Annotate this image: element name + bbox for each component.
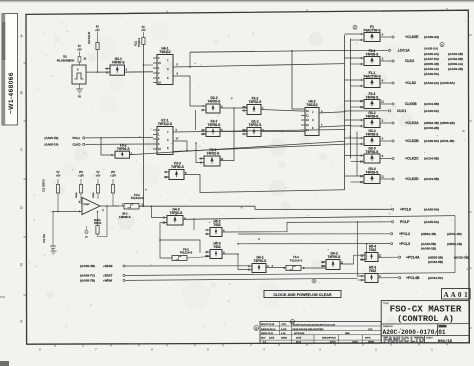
svg-text:A-DR: A-DR xyxy=(281,328,287,331)
sheet id box AA01 xyxy=(442,289,471,300)
wire PCL1 branch down to F5-2 xyxy=(101,138,110,155)
svg-text:CHKD: CHKD xyxy=(352,342,358,344)
circled 2 annotation xyxy=(353,25,357,29)
svg-text:05.01: 05.01 xyxy=(296,342,302,344)
svg-text:(AA03-1B): (AA03-1B) xyxy=(448,52,463,56)
wire tap from F4-1 output into G4-3 pin9 xyxy=(152,206,163,217)
gate F3-7 xyxy=(201,120,223,137)
svg-text:74F08-S: 74F08-S xyxy=(366,132,379,136)
terminal PCLP xyxy=(392,221,394,223)
svg-text:(AB02-4B): (AB02-4B) xyxy=(421,232,436,236)
svg-text:LM339-S: LM339-S xyxy=(119,215,131,219)
svg-text:7432: 7432 xyxy=(369,248,377,252)
svg-text:74F08-S: 74F08-S xyxy=(366,114,379,118)
svg-text:B: B xyxy=(255,326,257,330)
wire H5-2 output to PCLP terminal xyxy=(222,222,391,232)
svg-text:(AA06-5A): (AA06-5A) xyxy=(424,109,439,113)
svg-text:CLOCK AND POWER-ON CLEAR: CLOCK AND POWER-ON CLEAR xyxy=(273,293,332,297)
title block rev cell xyxy=(437,324,439,336)
svg-text:C12 33u: C12 33u xyxy=(43,233,46,243)
svg-text:+ERST: +ERST xyxy=(103,274,113,278)
svg-text:K: K xyxy=(312,126,314,130)
wire R111 long vertical xyxy=(142,45,144,207)
svg-text:74LS14-S: 74LS14-S xyxy=(290,258,303,262)
comparator J6-1 LM339-S xyxy=(82,198,100,215)
svg-text:A: A xyxy=(292,320,294,324)
gate H5-3b xyxy=(360,266,381,283)
svg-text:BT220-S: BT220-S xyxy=(139,37,141,47)
gate F2-2 xyxy=(242,97,264,115)
wire F3-3 output to gate column xyxy=(184,175,345,193)
svg-text:R92B: R92B xyxy=(93,192,95,198)
wire G4-2 output to H5-4 xyxy=(340,255,365,264)
gate G4-3 xyxy=(162,208,186,225)
revision mark circled A xyxy=(290,320,294,324)
gate G3-3 74F08-S xyxy=(345,146,439,163)
svg-text:+5V: +5V xyxy=(96,175,101,178)
svg-text:.FP/1: .FP/1 xyxy=(281,324,287,326)
svg-text:74F08-S: 74F08-S xyxy=(208,123,221,127)
paper texture blotches xyxy=(62,162,77,177)
resistor divider 4 xyxy=(111,185,114,194)
svg-text:+5V: +5V xyxy=(56,175,61,178)
svg-text:4-08: 4-08 xyxy=(281,333,286,335)
svg-text:(AA08-7C): (AA08-7C) xyxy=(80,274,95,278)
flip-flop H4-1 xyxy=(153,47,173,85)
wire F6-2 loop xyxy=(160,223,172,259)
svg-text:40.0000MXH: 40.0000MXH xyxy=(57,58,75,62)
svg-text:K: K xyxy=(167,146,169,150)
scan smudge bottom-left xyxy=(0,361,9,366)
gate G1-1 xyxy=(242,120,264,137)
svg-text:7432: 7432 xyxy=(213,245,221,249)
svg-text:(AA06-5B): (AA06-5B) xyxy=(421,242,436,246)
svg-text:74LS14-S: 74LS14-S xyxy=(131,196,144,200)
svg-text:(AA05-7A): (AA05-7A) xyxy=(44,143,58,147)
test point circle xyxy=(85,231,88,234)
svg-text:TITLE: TITLE xyxy=(383,303,389,305)
svg-text:(AA09-5C): (AA09-5C) xyxy=(424,72,439,76)
wire G4-3 output long line xyxy=(183,216,455,220)
svg-text:DATE: DATE xyxy=(269,337,275,340)
frame tick marks left xyxy=(24,62,27,64)
scan top edge shadow xyxy=(0,0,474,1)
wire clock line to gate column xyxy=(190,50,345,52)
svg-text:74F02-S: 74F02-S xyxy=(249,123,262,127)
svg-text:(AA08-GA): (AA08-GA) xyxy=(424,47,438,51)
gate H5-4 xyxy=(360,245,382,262)
svg-text:(AA02-2A) (AA05-5A): (AA02-2A) (AA05-5A) xyxy=(424,81,455,85)
svg-text:R111: R111 xyxy=(136,40,138,46)
svg-text:+PCL3: +PCL3 xyxy=(399,242,410,246)
svg-text:F: F xyxy=(21,320,23,324)
svg-text:74F00-S: 74F00-S xyxy=(208,100,221,104)
svg-text:APVD: APVD xyxy=(330,341,336,344)
svg-text:CLKD: CLKD xyxy=(73,143,81,147)
svg-text:EDIT: EDIT xyxy=(261,338,266,340)
svg-text:(AB05-2B): (AB05-2B) xyxy=(428,255,443,259)
resistor 1K into oscillator xyxy=(78,52,80,57)
wire H5-4 output to +PCL4A terminal xyxy=(378,256,398,258)
svg-text:(AD05-1B): (AD05-1B) xyxy=(424,62,439,66)
terminal +PCL3 xyxy=(391,243,393,245)
svg-text:PAGE 005-008 ARE MODIFIED.: PAGE 005-008 ARE MODIFIED. xyxy=(293,328,325,331)
svg-text:DATE: DATE xyxy=(296,337,302,340)
gate G2-1 xyxy=(105,57,128,75)
svg-text:74ACT00-S: 74ACT00-S xyxy=(363,28,381,32)
svg-text:+CLK0E: +CLK0E xyxy=(405,35,419,39)
svg-text:LDC1A: LDC1A xyxy=(398,49,410,53)
svg-text:74F00-S: 74F00-S xyxy=(328,255,341,259)
gate G3-1 74F08-S xyxy=(345,111,455,130)
svg-text:R91B: R91B xyxy=(76,192,78,198)
wire F4-1 output to +PCL0 line xyxy=(139,206,391,209)
svg-text:FSO-CX MASTER: FSO-CX MASTER xyxy=(390,304,462,315)
svg-text:CLK1: CLK1 xyxy=(397,109,406,113)
gate G4-2 xyxy=(321,252,344,270)
svg-text:(AA08-G2): (AA08-G2) xyxy=(424,35,439,39)
svg-text:CLK2: CLK2 xyxy=(405,59,414,63)
svg-text:DESCRIPTION: DESCRIPTION xyxy=(322,338,336,340)
wire G2-2 input stubs vertical xyxy=(195,110,197,130)
svg-text:+CLK2A: +CLK2A xyxy=(405,121,419,125)
gate F1-1 74ACT00-S xyxy=(345,71,455,88)
svg-text:(AC04-5C): (AC04-5C) xyxy=(428,276,443,280)
terminal LDC1A xyxy=(345,49,389,51)
svg-text:CLK0B: CLK0B xyxy=(405,102,417,106)
svg-text:+5V: +5V xyxy=(95,29,100,32)
svg-text:DESIG: DESIG xyxy=(368,342,375,344)
resistor divider 3 xyxy=(96,185,99,194)
svg-text:+CLS2: +CLS2 xyxy=(405,81,416,85)
svg-text:LTD: LTD xyxy=(411,337,425,344)
svg-text:Rev.07/7.8.4.P.10.2.10.10.3.Re: Rev.07/7.8.4.P.10.2.10.10.3.Rev.03.Prt.C… xyxy=(293,323,336,326)
svg-text:R510K: R510K xyxy=(94,222,102,225)
svg-text:(AF01-4B): (AF01-4B) xyxy=(447,232,462,236)
svg-text:(AA07-5A): (AA07-5A) xyxy=(424,57,439,61)
svg-text:~W1-468066: ~W1-468066 xyxy=(8,72,15,114)
svg-text:E: E xyxy=(20,263,22,267)
svg-text:+PCL0: +PCL0 xyxy=(400,208,411,212)
svg-text:+WDM: +WDM xyxy=(103,279,113,283)
svg-text:74F02-S: 74F02-S xyxy=(207,152,220,156)
paper speckle noise xyxy=(190,199,191,200)
svg-text:NEW: NEW xyxy=(345,333,350,335)
svg-text:APPD: APPD xyxy=(365,337,371,340)
svg-text:(AA05-5A): (AA05-5A) xyxy=(424,220,439,224)
svg-text:C: C xyxy=(312,118,314,122)
left margin stamp box xyxy=(2,14,18,126)
svg-text:(AA03-1B): (AA03-1B) xyxy=(448,67,463,71)
wire F5-2 output pair to right xyxy=(130,141,345,155)
svg-text:74F00-S: 74F00-S xyxy=(254,259,267,263)
svg-text:PCL1: PCL1 xyxy=(73,136,81,140)
svg-text:A A 0 1: A A 0 1 xyxy=(444,291,469,299)
title block drawing number cell xyxy=(381,323,469,325)
svg-text:B: B xyxy=(20,91,22,95)
svg-text:SHEET: SHEET xyxy=(426,338,433,340)
gate F3-1 74F08-S xyxy=(345,49,415,66)
svg-text:74LS14-S: 74LS14-S xyxy=(180,251,193,255)
ground under oscillator xyxy=(79,84,81,89)
svg-text:A20C-2000-0170/01: A20C-2000-0170/01 xyxy=(383,329,446,336)
wire F2-1 input from CLKD vertical xyxy=(196,143,199,163)
revision table column lines xyxy=(279,322,281,335)
wire H5-3 output loop to G4-1 xyxy=(222,254,247,270)
inverter F5-2 xyxy=(110,143,133,158)
frame tick marks bottom xyxy=(54,344,56,347)
wire vertical feed to H4-2 xyxy=(292,51,305,109)
svg-text:+PCL4A: +PCL4A xyxy=(406,255,420,259)
svg-text:(AD06-1A): (AD06-1A) xyxy=(448,62,463,66)
svg-text:K: K xyxy=(167,76,169,80)
svg-text:7432: 7432 xyxy=(369,269,377,273)
svg-text:001/15: 001/15 xyxy=(438,339,453,344)
svg-text:(AC04-5B): (AC04-5B) xyxy=(424,177,439,181)
wire +PCL3 from junction xyxy=(238,243,390,245)
gate G3-4 74F08-S xyxy=(345,167,439,184)
title block outline xyxy=(381,301,469,343)
svg-text:74F04-S: 74F04-S xyxy=(117,147,130,151)
svg-text:RIGHT 12 1B: RIGHT 12 1B xyxy=(261,324,275,326)
wire G4-3 pin10 from loop xyxy=(160,222,162,224)
svg-text:+CLK2B: +CLK2B xyxy=(405,139,419,143)
svg-text:0V: 0V xyxy=(78,95,81,99)
svg-text:74S112: 74S112 xyxy=(159,50,170,54)
svg-text:APPROVAL: APPROVAL xyxy=(294,332,306,335)
wire feed to H5-4 pin13 xyxy=(361,244,367,260)
svg-text:74F02-S: 74F02-S xyxy=(249,100,262,104)
svg-text:74F08-S: 74F08-S xyxy=(366,95,379,99)
gate H5-3a xyxy=(205,242,225,259)
svg-text:(AC03-5B): (AC03-5B) xyxy=(428,260,443,264)
svg-text:FANUC: FANUC xyxy=(384,337,410,344)
svg-text:C: C xyxy=(167,138,169,142)
svg-text:+15V: +15V xyxy=(110,175,116,178)
gate G2-2 xyxy=(201,96,223,113)
svg-text:+PCL4B: +PCL4B xyxy=(406,276,420,280)
wire oscillator output to G2-1 xyxy=(86,71,110,73)
svg-text:(AA06-1B): (AA06-1B) xyxy=(421,247,436,251)
wire tap to H5-2 xyxy=(193,219,195,230)
svg-text:(AC04-5B): (AC04-5B) xyxy=(424,102,439,106)
svg-text:(AB02-4B) (AB05-2B): (AB02-4B) (AB05-2B) xyxy=(424,121,455,125)
svg-text:1K: 1K xyxy=(84,59,87,61)
svg-text:(CONTROL A): (CONTROL A) xyxy=(397,314,454,324)
svg-text:74F112-S: 74F112-S xyxy=(158,122,173,126)
svg-text:(AA08-4B): (AA08-4B) xyxy=(80,264,95,268)
svg-text:DRAW NO.: DRAW NO. xyxy=(383,325,394,328)
wire comparator output xyxy=(100,205,119,207)
wire vertical bus x357 to H5 gates xyxy=(358,222,362,276)
svg-text:R11 B2A 2K: R11 B2A 2K xyxy=(88,31,91,44)
wire F2-1 output up to G2-2 output node xyxy=(220,108,234,161)
revision table row lines xyxy=(260,325,381,327)
circled junction mark xyxy=(312,279,316,283)
svg-text:7432: 7432 xyxy=(213,223,221,227)
svg-text:+15V: +15V xyxy=(78,175,84,178)
circled 1 annotation xyxy=(440,43,444,47)
svg-text:(AB02-1B): (AB02-1B) xyxy=(447,242,462,246)
svg-text:C13 LR33-S: C13 LR33-S xyxy=(44,179,46,192)
svg-text:(AC02-2B): (AC02-2B) xyxy=(448,57,463,61)
svg-text:(AA03-1C): (AA03-1C) xyxy=(424,67,439,71)
svg-text:(AC04-5B): (AC04-5B) xyxy=(424,157,439,161)
gate F2-1 xyxy=(199,148,224,166)
svg-text:DESIGN 05.14: DESIGN 05.14 xyxy=(261,329,276,331)
svg-text:74F00-S: 74F00-S xyxy=(112,61,125,65)
terminal +PCL4A xyxy=(399,256,401,258)
wire vertical bus to gate column xyxy=(344,35,346,190)
svg-text:+CLK2D: +CLK2D xyxy=(405,177,419,181)
flip-flop H4-2 xyxy=(301,100,319,136)
wire G2-1 output to H4-1 xyxy=(125,71,154,73)
gate H5-2 xyxy=(205,220,225,237)
gate F3-4 74F08-S xyxy=(345,92,439,109)
svg-text:74F00-S: 74F00-S xyxy=(170,211,183,215)
svg-text:(AA05-5A): (AA05-5A) xyxy=(424,208,439,212)
svg-text:+5V: +5V xyxy=(141,29,146,32)
svg-text:74F08-S: 74F08-S xyxy=(366,52,379,56)
gate G4-1 xyxy=(247,256,269,273)
svg-text:C: C xyxy=(167,67,169,71)
terminal CLK1 xyxy=(345,110,389,112)
svg-text:+CLK2C: +CLK2C xyxy=(405,157,419,161)
svg-text:DESN 05.01: DESN 05.01 xyxy=(261,333,274,335)
svg-text:DESIG: DESIG xyxy=(281,338,288,340)
gate F1 74ACT00-S xyxy=(345,25,440,42)
svg-text:+RESE: +RESE xyxy=(103,264,113,268)
frame tick marks right xyxy=(469,34,472,36)
gate F3-3 xyxy=(164,162,187,180)
gate G3-2 74F08-S xyxy=(345,129,455,146)
revision table outline xyxy=(260,322,381,344)
resistor R91B R510K xyxy=(79,185,82,194)
svg-text:(AA05-7B): (AA05-7B) xyxy=(44,136,58,140)
svg-text:+PCL2: +PCL2 xyxy=(399,232,410,236)
title block bottom row xyxy=(381,335,469,337)
revision mark circled B xyxy=(254,326,259,331)
frame tick marks top xyxy=(166,11,168,13)
svg-text:(AA09-2A): (AA09-2A) xyxy=(424,52,439,56)
svg-text:(AC03-2B): (AC03-2B) xyxy=(424,126,439,130)
svg-text:(AA08-7B): (AA08-7B) xyxy=(80,279,95,283)
svg-text:COMP: COMP xyxy=(83,204,90,206)
wire +PCL2 from junction xyxy=(238,233,390,235)
svg-text:74F00-S: 74F00-S xyxy=(171,165,184,169)
svg-text:(AA08-5C) (AF01-4B): (AA08-5C) (AF01-4B) xyxy=(424,139,454,143)
svg-text:74F08-S: 74F08-S xyxy=(366,170,379,174)
svg-text:(AC02-3B): (AC02-3B) xyxy=(454,255,469,259)
svg-text:74ACT00-S: 74ACT00-S xyxy=(363,74,381,78)
caption box CLOCK AND POWER-ON CLEAR xyxy=(264,291,341,298)
terminal +PCL4B xyxy=(399,277,401,279)
svg-text:74F08-S: 74F08-S xyxy=(366,150,379,154)
wire comparator inputs xyxy=(81,203,82,205)
svg-text:PCLP: PCLP xyxy=(400,220,410,224)
svg-text:+5V: +5V xyxy=(77,48,82,51)
terminal +PCL2 xyxy=(391,233,393,235)
flip-flop K7-1 xyxy=(153,119,173,155)
terminal +PCL0 xyxy=(392,208,394,210)
svg-text:74S112: 74S112 xyxy=(306,103,317,107)
